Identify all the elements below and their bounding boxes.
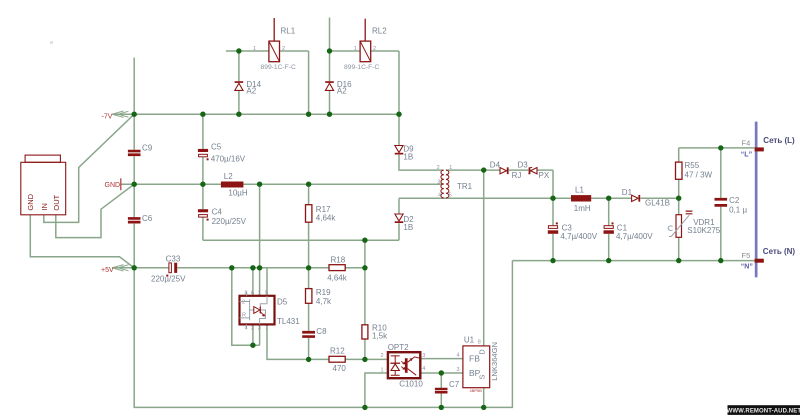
svg-text:8: 8 — [245, 291, 248, 297]
node dots +5V rail — [132, 265, 137, 270]
varistor VDR1 — [668, 211, 692, 238]
svg-text:3: 3 — [422, 353, 425, 359]
transformer TR1 — [441, 170, 449, 198]
svg-text:PX: PX — [539, 171, 550, 180]
capacitor C33 polarized inline — [166, 263, 177, 277]
svg-text:1B: 1B — [403, 223, 413, 232]
diode D14 — [235, 81, 244, 90]
svg-text:C9: C9 — [142, 144, 153, 153]
svg-text:OUT: OUT — [52, 194, 61, 210]
wire RL2 vertical with D16 — [329, 18, 331, 115]
svg-text:C2: C2 — [729, 196, 740, 205]
wire C3 branch — [552, 198, 554, 260]
wire R17 R19 C8 column — [308, 184, 310, 359]
svg-text:5: 5 — [449, 192, 452, 198]
node dots -7V rail — [132, 112, 137, 117]
wire RL1 coil row — [226, 51, 309, 114]
wire ground return rail (left drop + bottom + riser) — [134, 261, 512, 408]
connector X1 — [21, 155, 66, 215]
capacitor C8 — [302, 331, 315, 338]
resistor R19 — [306, 289, 312, 304]
IC D5 TL431 module — [240, 292, 275, 329]
svg-text:4,64k: 4,64k — [316, 213, 337, 222]
capacitor C4 polarized — [198, 209, 209, 220]
svg-text:220µ/25V: 220µ/25V — [151, 275, 186, 284]
svg-text:220µ/25V: 220µ/25V — [212, 217, 247, 226]
wire R12 row to optocoupler — [345, 358, 388, 360]
svg-text:-7V: -7V — [102, 114, 113, 121]
node dot TL431 anode — [250, 343, 255, 348]
node dots relay rows — [236, 48, 241, 53]
resistor R55 — [676, 162, 683, 179]
svg-text:“L”: “L” — [741, 152, 752, 159]
capacitor C7 — [435, 388, 448, 394]
svg-text:C6: C6 — [142, 214, 153, 223]
wire opto pin1 drop — [365, 373, 388, 407]
wire DC minus row — [512, 260, 754, 262]
svg-text:3: 3 — [258, 325, 261, 331]
fuse tick F5 — [755, 259, 764, 263]
node dots GND rail — [132, 182, 137, 187]
wire -7V rail — [113, 113, 400, 115]
GND net tick — [120, 178, 122, 190]
svg-text:R12: R12 — [330, 346, 345, 355]
svg-text:2: 2 — [373, 46, 376, 52]
svg-text:A2: A2 — [337, 87, 347, 96]
resistor R17 — [306, 205, 312, 223]
wire connector OUT pin to GND node — [56, 184, 134, 237]
svg-text:4,64k: 4,64k — [327, 273, 348, 282]
node dot drain — [481, 167, 486, 172]
svg-text:D1: D1 — [622, 188, 633, 197]
svg-text:GL41B: GL41B — [645, 199, 670, 208]
inductor L1 — [571, 195, 591, 201]
wire GND rail — [121, 183, 442, 185]
svg-text:Сеть (N): Сеть (N) — [763, 247, 796, 256]
wire D9 branch to transformer pin2 — [399, 114, 443, 170]
node dots DC minus row — [550, 258, 555, 263]
capacitor C6 — [128, 217, 141, 223]
wire connector GND pin to +5V node — [30, 215, 134, 268]
wire left column x=134 stub — [133, 58, 135, 115]
svg-text:TR1: TR1 — [457, 182, 473, 191]
svg-text:4,7µ/400V: 4,7µ/400V — [560, 232, 597, 241]
svg-text:5: 5 — [265, 291, 268, 297]
svg-text:1B: 1B — [403, 152, 413, 161]
wire R55 VDR1 column — [678, 148, 680, 261]
node dots bottom rail — [362, 405, 367, 410]
svg-text:U1: U1 — [464, 335, 475, 344]
svg-text:D: D — [478, 349, 487, 355]
svg-text:4: 4 — [438, 192, 441, 198]
svg-text:F5: F5 — [742, 251, 751, 260]
svg-text:1,5k: 1,5k — [372, 332, 388, 341]
svg-text:R19: R19 — [316, 288, 331, 297]
capacitor C1 polarized — [604, 222, 614, 233]
mains line (board edge) — [755, 122, 758, 278]
node dot F4 row — [718, 145, 723, 150]
svg-text:1: 1 — [449, 165, 452, 171]
capacitor C5 polarized — [198, 149, 209, 160]
capacitor C9 — [128, 150, 141, 156]
svg-text:1: 1 — [381, 367, 384, 373]
svg-text:RL2: RL2 — [372, 27, 387, 36]
relay RL2 — [360, 19, 371, 62]
resistor R10 — [362, 325, 368, 339]
wire top right row to F4 — [679, 147, 755, 149]
wire U1 source drop — [483, 388, 485, 408]
diode D9 — [395, 146, 404, 155]
IC U1 LNK364GN — [463, 346, 490, 393]
svg-text:899-1C-F-C: 899-1C-F-C — [344, 64, 379, 71]
svg-text:C7: C7 — [449, 380, 460, 389]
svg-text:4,7k: 4,7k — [316, 297, 332, 306]
wire connector IN pin to -7V node — [44, 114, 134, 222]
svg-text:GND: GND — [26, 193, 35, 210]
svg-text:R: R — [242, 313, 246, 319]
wire U1 drain riser — [483, 170, 485, 346]
svg-text:LNK364GN: LNK364GN — [490, 342, 499, 381]
svg-text:GND: GND — [105, 182, 121, 189]
wire mid row y=240 to D2 — [203, 198, 399, 240]
svg-text:F4: F4 — [742, 139, 751, 148]
svg-text:D5: D5 — [277, 297, 288, 306]
svg-text:IN: IN — [40, 203, 49, 211]
svg-text:2: 2 — [242, 300, 245, 306]
svg-text:D3: D3 — [518, 161, 529, 170]
svg-text:1: 1 — [253, 46, 256, 52]
capacitor C3 polarized — [548, 222, 558, 233]
svg-text:10µH: 10µH — [228, 188, 248, 197]
svg-text:A2: A2 — [246, 87, 256, 96]
wire TR1 pin1 row with D4 D3 — [446, 170, 553, 198]
inductor L2 — [221, 182, 244, 188]
svg-text:Сеть (L): Сеть (L) — [763, 136, 795, 145]
svg-text:+5V: +5V — [101, 267, 114, 274]
svg-text:6: 6 — [251, 291, 254, 297]
svg-text:S: S — [478, 375, 487, 380]
wire RL2 coil row — [330, 51, 400, 114]
svg-text:4: 4 — [245, 325, 248, 331]
svg-text:R18: R18 — [331, 256, 346, 265]
svg-text:470µ/16V: 470µ/16V — [211, 154, 246, 163]
svg-text:47 / 3W: 47 / 3W — [685, 171, 713, 180]
svg-text:8: 8 — [478, 339, 481, 345]
svg-text:RL1: RL1 — [281, 27, 296, 36]
capacitor C2 — [715, 198, 728, 207]
svg-text:7: 7 — [265, 325, 268, 331]
node dot BP row — [439, 370, 444, 375]
wire left column through C9 C6 — [133, 114, 135, 268]
svg-text:0,1 µ: 0,1 µ — [729, 206, 747, 215]
svg-text:1: 1 — [258, 291, 261, 297]
wire R18/R10 column — [364, 240, 366, 359]
diode D3 schottky — [528, 167, 537, 174]
svg-text:470: 470 — [333, 364, 347, 373]
diode D2 — [395, 214, 404, 223]
wire TL431 bottom pins — [253, 324, 329, 359]
svg-text:C4: C4 — [212, 207, 223, 216]
wire TL431 cathode loop — [232, 268, 260, 345]
svg-text:L1: L1 — [575, 186, 584, 195]
svg-text:2: 2 — [381, 353, 384, 359]
svg-text:2: 2 — [437, 165, 440, 171]
svg-text:TL431: TL431 — [277, 317, 300, 326]
node dots R12 row — [306, 357, 311, 362]
svg-text:RJ: RJ — [512, 171, 522, 180]
svg-text:4,7µ/400V: 4,7µ/400V — [616, 232, 653, 241]
wire +5V rail with C33 and R18 inline — [113, 267, 365, 269]
fuse tick F4 — [755, 147, 764, 151]
svg-text:4: 4 — [457, 353, 460, 359]
svg-text:1: 1 — [354, 46, 357, 52]
svg-text:D4: D4 — [490, 161, 501, 170]
diode D4 — [500, 167, 509, 174]
node dots rectifier row — [550, 196, 555, 201]
wire C1 branch — [608, 198, 610, 260]
relay RL1 — [269, 18, 280, 62]
svg-text:OPT2: OPT2 — [388, 343, 409, 352]
svg-text:899-1C-F-C: 899-1C-F-C — [261, 64, 296, 71]
svg-text:R55: R55 — [685, 161, 700, 170]
resistor R12 — [329, 356, 345, 362]
net arrow +5V — [112, 265, 129, 271]
wire RL1 left vertical with D14 — [238, 51, 240, 114]
svg-text:C1010: C1010 — [399, 380, 423, 389]
svg-text:4BP5B: 4BP5B — [470, 388, 483, 393]
svg-text:2: 2 — [251, 325, 254, 331]
wire C7 branch — [440, 373, 442, 407]
svg-text:1mH: 1mH — [574, 204, 591, 213]
svg-text:4: 4 — [422, 366, 425, 372]
wire opto pin3 to FB — [420, 358, 463, 360]
resistor R18 — [329, 265, 345, 271]
wire C2 branch — [720, 148, 722, 261]
svg-text:3: 3 — [457, 367, 460, 373]
svg-text:C5: C5 — [211, 143, 222, 152]
wire TR1 pin5 / L1 / D1 row — [399, 197, 679, 199]
net arrow -7V — [112, 111, 129, 117]
svg-text:“N”: “N” — [741, 263, 753, 270]
svg-text:S10K275: S10K275 — [687, 226, 720, 235]
optocoupler OPT2 — [388, 352, 420, 378]
svg-text:WWW.REMONT-AUD.NET: WWW.REMONT-AUD.NET — [727, 408, 800, 414]
diode D1 — [632, 195, 641, 202]
diode D16 — [325, 81, 334, 90]
svg-text:C33: C33 — [166, 254, 181, 263]
wire opto pin4 to BP — [420, 372, 463, 374]
watermark — [727, 405, 800, 415]
svg-text:C8: C8 — [316, 327, 327, 336]
stray faint mark — [50, 41, 53, 44]
svg-text:2: 2 — [282, 46, 285, 52]
wire TL431 top pins to +5V — [253, 184, 267, 296]
node dot mid row — [362, 238, 367, 243]
svg-text:L2: L2 — [224, 172, 233, 181]
svg-text:3: 3 — [437, 179, 440, 185]
wire C5 C4 column — [202, 114, 204, 240]
